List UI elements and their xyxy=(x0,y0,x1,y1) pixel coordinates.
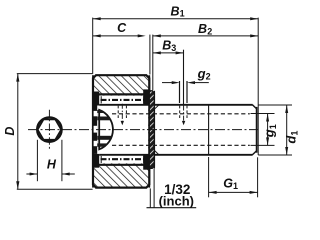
B1/B2 extension line right xyxy=(257,18,259,155)
g2 hole wall extension left xyxy=(179,81,181,103)
head cross hole centerline xyxy=(121,104,123,121)
svg-text:G: G xyxy=(223,176,233,190)
hex socket wall band 2 xyxy=(97,117,113,121)
dimension g1 line xyxy=(267,114,269,146)
dimension g2 left tail xyxy=(162,82,172,84)
dimension C arrow left xyxy=(93,34,101,37)
1/32 collar face extension line xyxy=(153,169,155,208)
svg-text:D: D xyxy=(3,127,17,136)
dimension G1 line xyxy=(209,191,258,193)
dimension g2 arrow right xyxy=(187,81,195,84)
d1 extension line bottom xyxy=(258,154,292,156)
needle end line left top xyxy=(100,96,102,103)
svg-text:2: 2 xyxy=(206,71,211,81)
stud head dome (spherical socket end) xyxy=(99,110,113,149)
g2 hole drill point arrow xyxy=(182,121,185,125)
1/32 leader underline xyxy=(147,207,197,209)
hex socket slit 3 xyxy=(94,141,98,146)
left end plate lower segment (black) xyxy=(94,154,100,168)
dimension B1 arrow left xyxy=(93,17,101,20)
dimension B3 arrow right xyxy=(176,51,184,54)
ring bore line top xyxy=(96,93,149,95)
dimension d1 arrow down xyxy=(285,147,288,155)
G1 extension line left xyxy=(208,157,210,197)
hex socket slit 2 xyxy=(94,126,98,133)
stud outer surface bottom xyxy=(99,154,252,156)
dimension B2 arrow right xyxy=(250,34,258,37)
needle roller centerline bottom xyxy=(101,158,145,160)
svg-text:2: 2 xyxy=(207,27,212,37)
svg-text:1: 1 xyxy=(180,9,185,19)
needle roller centerline top xyxy=(101,99,145,101)
stud collar hatched section xyxy=(149,91,154,169)
dimension B3 arrow left xyxy=(153,51,161,54)
hidden lubrication bore top xyxy=(112,113,250,115)
right end plate bottom segment (black) xyxy=(143,155,149,170)
hex socket wall band 3 xyxy=(97,136,113,140)
svg-text:H: H xyxy=(47,158,57,172)
g2 hole centerline hidden part xyxy=(183,106,185,122)
svg-text:g: g xyxy=(197,66,206,81)
hex socket wall band 4 xyxy=(97,143,113,146)
dimension g2 right tail xyxy=(195,82,209,84)
dimension H line left tail xyxy=(26,173,37,175)
head cross hole drill point arrow xyxy=(121,121,124,125)
roller left face line xyxy=(92,75,94,187)
svg-text:1: 1 xyxy=(233,181,238,191)
stud head face column (black) xyxy=(94,106,98,154)
g2 hole hidden wall left xyxy=(179,106,181,120)
hex socket wall band 1 xyxy=(97,110,113,113)
collar face extension line (B2/B3 left) xyxy=(152,35,154,91)
dimension C line xyxy=(93,35,139,37)
g2 hole hidden wall right xyxy=(186,106,188,120)
vertical centerline of end view xyxy=(48,110,50,150)
left end plate upper segment (black) xyxy=(94,92,100,106)
g1 extension line bottom xyxy=(251,144,275,146)
shank neck chamfer top xyxy=(154,105,159,109)
dimension D extension line bottom xyxy=(17,188,93,190)
dimension H extension line left xyxy=(36,140,38,181)
svg-text:C: C xyxy=(117,21,127,35)
g2 hole centerline / B3 extension xyxy=(183,50,185,106)
svg-text:d1: d1 xyxy=(283,131,299,144)
svg-text:3: 3 xyxy=(171,43,176,53)
dimension B2 line xyxy=(153,35,258,37)
dimension D arrow up xyxy=(16,74,19,82)
svg-text:(inch): (inch) xyxy=(159,194,194,209)
g1 extension line top xyxy=(251,113,275,115)
main horizontal centerline xyxy=(28,129,258,131)
right end plate top segment (black) xyxy=(143,89,149,104)
d1 extension line top xyxy=(258,104,292,106)
svg-text:B: B xyxy=(171,4,180,18)
1/32 roller face extension line xyxy=(149,188,151,207)
dimension B3 line xyxy=(153,52,184,54)
dimension H extension line right xyxy=(61,140,63,181)
thread runout line xyxy=(208,105,210,155)
dimension G1 arrow right xyxy=(250,191,258,194)
hidden lubrication bore bottom xyxy=(112,144,250,146)
dimension d1 line xyxy=(286,105,288,155)
dimension H line right tail xyxy=(62,173,75,175)
dimension g1 arrow down xyxy=(266,137,269,145)
g2 hole wall extension right xyxy=(186,81,188,103)
G1 extension line right xyxy=(257,157,259,197)
dimension H arrow right xyxy=(62,173,70,176)
needle end line right bottom xyxy=(143,156,145,163)
outer ring (roller) hatched section xyxy=(93,75,149,187)
svg-text:g1: g1 xyxy=(262,124,278,138)
needle end line left bottom xyxy=(100,156,102,163)
ring bore line bottom xyxy=(96,164,149,166)
dimension G1 arrow left xyxy=(209,191,217,194)
dimension B1 line xyxy=(93,18,259,20)
circle (stud head outline, end view) xyxy=(37,118,61,142)
dimension B2 arrow left xyxy=(153,34,161,37)
head cross hole hidden wall left xyxy=(117,106,119,120)
roller right face line xyxy=(148,75,150,187)
roller bore interior white xyxy=(94,96,148,164)
shank neck chamfer bottom xyxy=(154,150,159,154)
shank end face xyxy=(256,107,258,153)
roller face extension line (C right) xyxy=(149,35,151,75)
collar right face line xyxy=(153,91,155,169)
dimension g2 arrow left xyxy=(172,81,180,84)
dimension d1 arrow up xyxy=(285,105,288,113)
hex socket hexagon xyxy=(38,120,61,140)
head cross hole hidden wall right xyxy=(125,106,127,120)
hex socket slit 1 xyxy=(94,111,98,116)
dimension C arrow right xyxy=(138,34,146,37)
B1 extension line left xyxy=(92,18,94,73)
svg-text:B: B xyxy=(162,38,171,52)
dimension H arrow left xyxy=(30,173,38,176)
needle end line right top xyxy=(143,96,145,103)
shank end chamfer top xyxy=(252,105,256,109)
dimension D arrow down xyxy=(16,181,19,189)
shank end chamfer bottom xyxy=(252,151,256,155)
dimension D line xyxy=(17,74,19,189)
stud outer surface top (under needles through shank) xyxy=(99,104,252,106)
svg-text:B: B xyxy=(198,22,207,36)
dimension D extension line top xyxy=(17,73,93,75)
dimension B1 arrow right xyxy=(250,17,258,20)
dimension g1 arrow up xyxy=(266,114,269,122)
